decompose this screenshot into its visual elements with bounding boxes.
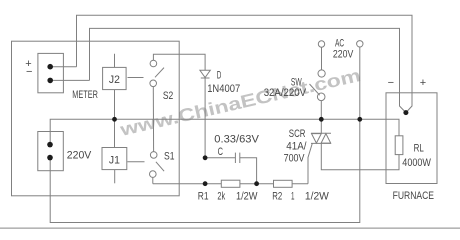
svg-text:J1: J1 bbox=[109, 154, 120, 166]
svg-text:+: + bbox=[420, 77, 426, 89]
svg-text:1N4007: 1N4007 bbox=[207, 83, 240, 95]
svg-text:J2: J2 bbox=[109, 74, 120, 86]
svg-text:C: C bbox=[218, 146, 223, 158]
svg-text:0.33/63V: 0.33/63V bbox=[214, 133, 259, 145]
svg-text:32A/220V: 32A/220V bbox=[264, 87, 307, 99]
svg-text:SCR: SCR bbox=[289, 128, 306, 140]
svg-text:R1: R1 bbox=[198, 190, 209, 202]
svg-text:220V: 220V bbox=[333, 48, 354, 60]
svg-text:1/2W: 1/2W bbox=[305, 190, 330, 202]
svg-text:−: − bbox=[26, 66, 32, 78]
svg-text:−: − bbox=[388, 77, 394, 89]
svg-text:700V: 700V bbox=[284, 153, 305, 165]
svg-text:41A/: 41A/ bbox=[286, 140, 307, 152]
svg-text:RL: RL bbox=[414, 143, 424, 155]
svg-text:D: D bbox=[217, 69, 222, 81]
svg-text:R2: R2 bbox=[272, 190, 282, 202]
svg-text:4000W: 4000W bbox=[402, 157, 431, 169]
svg-text:FURNACE: FURNACE bbox=[393, 190, 434, 202]
svg-text:2k: 2k bbox=[217, 190, 225, 202]
svg-text:220V: 220V bbox=[67, 150, 92, 162]
svg-text:1/2W: 1/2W bbox=[236, 190, 258, 202]
svg-text:S1: S1 bbox=[164, 150, 175, 162]
svg-text:1: 1 bbox=[291, 190, 295, 202]
svg-text:S2: S2 bbox=[163, 90, 173, 102]
svg-text:METER: METER bbox=[72, 89, 98, 101]
